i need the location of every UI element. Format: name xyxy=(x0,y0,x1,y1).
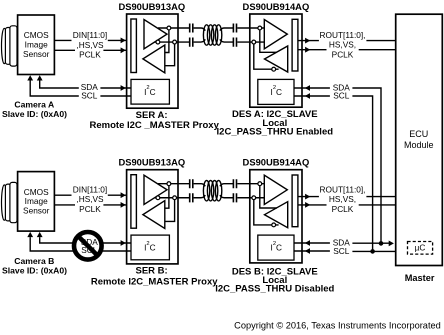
wire SCL B from I2C to label xyxy=(294,250,330,252)
wire pair line minus inside SER A xyxy=(155,41,190,43)
arrowhead SCL up into CMOS A xyxy=(27,75,33,80)
node bubble DES B driver output xyxy=(272,223,276,227)
SER A serializer bar xyxy=(131,19,137,73)
wire DIN line2 A right segment xyxy=(103,49,126,51)
node bubble minus left SER A xyxy=(156,40,160,44)
svg-text:I2C: I2C xyxy=(144,241,156,253)
svg-text:,HS,VS: ,HS,VS xyxy=(76,40,104,50)
wire ROUT line2 stub A xyxy=(298,49,327,51)
wire node down to driver DES B top xyxy=(260,184,277,208)
capacitor bottom left A xyxy=(190,38,193,47)
DES A receiver triangle xyxy=(264,20,287,49)
svg-text:Master: Master xyxy=(405,273,435,283)
camera A lens barrel xyxy=(2,26,18,66)
wire ROUT line1 to ECU B xyxy=(366,196,395,198)
arrowhead ROUT line2 B xyxy=(305,202,310,208)
wire SDA A right segment to I2C xyxy=(100,87,131,89)
wire ROUT line1 stub B xyxy=(298,196,319,198)
capacitor top right A xyxy=(233,24,236,33)
node bubble DES A top xyxy=(258,26,262,30)
node bubble DES B bottom xyxy=(252,196,256,200)
wire coil to cap bottom B xyxy=(220,195,233,198)
svg-text:ECU: ECU xyxy=(409,129,428,139)
arrowhead DIN line1 into SER B xyxy=(121,192,126,198)
svg-text:DS90UB914AQ: DS90UB914AQ xyxy=(243,1,310,12)
wire SDA A left with corner up into CMOS xyxy=(40,81,79,89)
wire node down to driver DES B bottom xyxy=(254,198,279,225)
wire SDA B left with corner up into CMOS xyxy=(40,237,79,243)
arrowhead SDA into DES A xyxy=(305,85,310,91)
arrowhead SDA up into CMOS A xyxy=(37,75,43,80)
SER B box xyxy=(127,170,178,264)
wire DIN line1 A left stub xyxy=(54,39,71,41)
arrowhead ROUT line2 A xyxy=(305,47,310,53)
arrowhead SDA into SER B xyxy=(121,240,126,246)
wire coil to cap top B xyxy=(220,184,233,187)
wire node down to driver DES A top xyxy=(260,28,277,52)
wire ROUT line2 to ECU A xyxy=(359,49,396,51)
wire DIN line2 B left stub xyxy=(54,204,75,206)
arrowhead SDA B into ECU xyxy=(389,241,394,247)
arrowhead SCL into DES B xyxy=(305,248,310,254)
arrowhead SDA into SER A xyxy=(121,85,126,91)
wire ROUT line2 stub B xyxy=(298,204,327,206)
wire DIN line2 A left stub xyxy=(54,49,75,51)
arrowhead DIN line2 into SER B xyxy=(121,202,126,208)
camera B lens barrel xyxy=(2,182,18,222)
wire DIN line1 B left stub xyxy=(54,194,71,196)
junction dot SCL A-B xyxy=(370,249,375,254)
wire SDA A from I2C to label xyxy=(294,87,330,89)
wire DIN line1 B right segment xyxy=(108,194,127,196)
wire cap to DES B top xyxy=(237,183,264,185)
svg-text:I2C: I2C xyxy=(271,241,283,253)
SER A driver triangle xyxy=(144,20,167,49)
wire cap to coil top A xyxy=(194,28,206,31)
svg-text:I2C: I2C xyxy=(271,85,283,97)
svg-text:Copyright © 2016, Texas Instru: Copyright © 2016, Texas Instruments Inco… xyxy=(234,321,441,331)
svg-text:PCLK: PCLK xyxy=(79,204,101,214)
wire SDA B label to ECU xyxy=(352,242,389,244)
svg-text:I2C: I2C xyxy=(144,85,156,97)
wire SCL A right segment to I2C xyxy=(100,95,131,97)
DES B box xyxy=(250,170,302,263)
svg-text:DS90UB913AQ: DS90UB913AQ xyxy=(118,157,185,168)
svg-text:Image: Image xyxy=(25,196,48,206)
capacitor top right B xyxy=(233,179,236,188)
wire node plus down to receiver SER A xyxy=(165,28,169,53)
wire cap to coil bottom B xyxy=(194,195,206,198)
SER B driver triangle xyxy=(144,175,167,204)
svg-text:SER B:: SER B: xyxy=(135,266,167,277)
wire SCL A label to corner down xyxy=(352,96,372,251)
microcontroller uC dashed box xyxy=(408,242,433,255)
capacitor bottom left B xyxy=(190,193,193,202)
wire pair line plus inside SER B xyxy=(158,183,189,185)
DES B back-channel driver triangle xyxy=(265,202,288,228)
node bubble DES A driver output xyxy=(272,67,276,71)
arrowhead SDA into DES B xyxy=(305,240,310,246)
wire cap to DES A top xyxy=(237,27,264,29)
SER B serializer bar xyxy=(131,175,137,229)
svg-text:µC: µC xyxy=(415,243,426,253)
wire ROUT line1 stub A xyxy=(298,40,319,42)
DES A I2C box xyxy=(258,79,294,104)
wire SDA B from I2C to label xyxy=(294,242,330,244)
DES A deserializer bar xyxy=(292,19,298,71)
svg-text:HS,VS,: HS,VS, xyxy=(329,194,356,204)
wire SCL B label to ECU xyxy=(352,250,395,252)
DES A back-channel driver triangle xyxy=(265,46,288,72)
SER B receiver triangle xyxy=(143,201,165,229)
wire ROUT line2 to ECU B xyxy=(359,204,396,206)
wire node minus down to receiver SER B xyxy=(165,198,175,222)
svg-text:SCL: SCL xyxy=(333,246,350,256)
DES B receiver triangle xyxy=(264,175,287,204)
SER A box xyxy=(127,14,178,108)
SER A I2C box xyxy=(131,79,169,104)
junction dot SDA A-B xyxy=(379,241,384,246)
wire cap to DES B bottom xyxy=(237,197,264,199)
node bubble plus SER B xyxy=(167,182,171,186)
svg-text:I2C_PASS_THRU Enabled: I2C_PASS_THRU Enabled xyxy=(217,127,334,138)
svg-text:PCLK: PCLK xyxy=(332,50,354,60)
wire coil to cap top A xyxy=(220,28,233,31)
capacitor bottom right B xyxy=(233,193,236,202)
wire ROUT line1 to ECU A xyxy=(366,40,395,42)
twisted pair coil B xyxy=(203,181,221,201)
svg-text:I2C_PASS_THRU Disabled: I2C_PASS_THRU Disabled xyxy=(215,284,334,295)
wire SCL A left with corner up into CMOS xyxy=(30,81,79,97)
node bubble minus right SER B xyxy=(173,196,177,200)
arrowhead SDA up into CMOS B xyxy=(37,232,43,237)
wire cap to DES A bottom xyxy=(237,41,264,43)
wire pair line plus inside SER A xyxy=(158,27,189,29)
svg-text:Module: Module xyxy=(404,140,434,150)
svg-text:Slave ID: (0xA0): Slave ID: (0xA0) xyxy=(2,265,67,275)
svg-text:SCL: SCL xyxy=(333,91,350,101)
svg-text:Sensor: Sensor xyxy=(23,49,50,59)
node bubble DES A bottom xyxy=(252,40,256,44)
capacitor top left B xyxy=(190,179,193,188)
wire DIN line1 A right segment xyxy=(108,39,127,41)
svg-text:HS,VS,: HS,VS, xyxy=(329,40,356,50)
wire SCL B right segment to I2C xyxy=(100,250,131,252)
node bubble minus right SER A xyxy=(173,40,177,44)
arrowhead ROUT line1 B xyxy=(305,194,310,200)
wire cap to coil bottom A xyxy=(194,39,206,42)
wire node down to driver DES A bottom xyxy=(254,42,279,69)
twisted pair coil A xyxy=(203,25,221,45)
wire coil to cap bottom A xyxy=(220,39,233,42)
arrowhead SCL up into CMOS B xyxy=(27,232,33,237)
capacitor bottom right A xyxy=(233,38,236,47)
arrowhead SCL into DES A xyxy=(305,93,310,99)
prohibition symbol over SDA/SCL B xyxy=(74,232,102,260)
wire SCL A from I2C to label xyxy=(294,95,330,97)
svg-text:SCL: SCL xyxy=(81,91,98,101)
svg-text:Image: Image xyxy=(25,39,48,49)
wire SDA B right segment to I2C xyxy=(100,242,131,244)
SER B I2C box xyxy=(131,235,169,260)
capacitor top left A xyxy=(190,24,193,33)
DES B deserializer bar xyxy=(292,175,298,227)
wire cap to coil top B xyxy=(194,184,206,187)
wire node plus down to receiver SER B xyxy=(165,184,169,209)
svg-text:Remote I2C _MASTER Proxy: Remote I2C _MASTER Proxy xyxy=(90,120,220,131)
svg-text:Sensor: Sensor xyxy=(23,206,50,216)
wire node minus down to receiver SER A xyxy=(165,42,175,66)
SER A receiver triangle xyxy=(143,45,165,73)
svg-text:DS90UB913AQ: DS90UB913AQ xyxy=(118,1,185,12)
svg-text:,HS,VS: ,HS,VS xyxy=(76,194,104,204)
svg-text:ROUT[11:0],: ROUT[11:0], xyxy=(320,30,366,40)
wire pair line minus inside SER B xyxy=(155,197,190,199)
prohibition diagonal bar xyxy=(78,236,97,255)
svg-text:DS90UB914AQ: DS90UB914AQ xyxy=(243,157,310,168)
svg-text:Remote I2C_MASTER Proxy: Remote I2C_MASTER Proxy xyxy=(91,277,218,288)
arrowhead ROUT line1 A xyxy=(305,38,310,44)
DES A box xyxy=(250,14,302,107)
node bubble DES B top xyxy=(258,182,262,186)
svg-text:PCLK: PCLK xyxy=(332,204,354,214)
wire SCL B left with corner up into CMOS xyxy=(30,237,79,251)
node bubble minus left SER B xyxy=(156,196,160,200)
DES B I2C box xyxy=(258,235,294,260)
arrowhead DIN line1 into SER A xyxy=(121,38,126,44)
arrowhead DIN line2 into SER A xyxy=(121,47,126,53)
svg-text:DIN[11:0]: DIN[11:0] xyxy=(73,184,107,194)
wire SDA A label to corner down xyxy=(352,88,381,243)
svg-text:Slave ID: (0xA0): Slave ID: (0xA0) xyxy=(2,109,67,119)
wire DIN line2 B right segment xyxy=(103,204,126,206)
ECU module box xyxy=(396,14,443,265)
svg-text:PCLK: PCLK xyxy=(79,49,101,59)
svg-text:ROUT[11:0],: ROUT[11:0], xyxy=(320,184,366,194)
CMOS image sensor A box xyxy=(18,15,55,75)
CMOS image sensor B box xyxy=(18,172,55,232)
svg-text:DIN[11:0]: DIN[11:0] xyxy=(73,30,107,40)
node bubble plus SER A xyxy=(167,26,171,30)
